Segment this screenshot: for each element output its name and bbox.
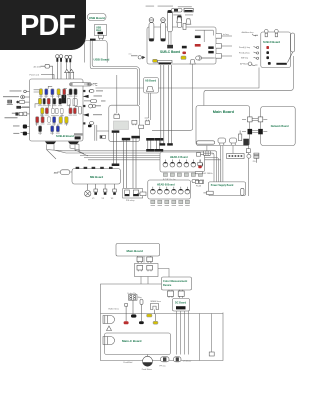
svg-text:AC 100Va: AC 100Va xyxy=(203,172,213,175)
svg-text:MB Board: MB Board xyxy=(90,175,103,179)
carriage connector J32 xyxy=(132,120,137,125)
media sensor trapezoid xyxy=(190,60,195,64)
svg-text:Color Measurement: Color Measurement xyxy=(163,279,187,283)
ribbon exit connector SUB-B 2 xyxy=(68,142,79,145)
sensor connector (yellow oval) A xyxy=(147,314,152,317)
AB Board box xyxy=(144,78,159,94)
DC board wires down xyxy=(177,311,189,355)
SRAM sensor xyxy=(150,300,161,321)
main board connector B xyxy=(230,138,237,145)
carriage enclosure box xyxy=(109,105,140,142)
main board crystal xyxy=(238,131,241,141)
wires top right of SUB-C xyxy=(195,30,213,42)
printer chassis outline (lower) xyxy=(101,284,224,361)
key label row 2 xyxy=(239,52,259,55)
wire into carriage left xyxy=(97,130,109,132)
cluster connector 2 xyxy=(147,257,153,263)
pump motor under MB xyxy=(85,184,91,197)
cluster connector 3 xyxy=(137,265,143,271)
SUB-B right edge connector row e xyxy=(83,104,101,108)
Power Supply Board box xyxy=(209,182,246,196)
svg-text:Main Board: Main Board xyxy=(127,249,144,253)
HEAD-C nozzles xyxy=(163,160,203,177)
HEAD-B nozzles xyxy=(150,187,189,204)
ribbon cable D (to HEAD-C) xyxy=(155,138,163,152)
SUB-B Board box xyxy=(30,79,84,141)
relay K2 xyxy=(133,190,138,196)
SUB-B right edge connector row d xyxy=(84,100,106,103)
valve V2 under MB xyxy=(102,184,107,200)
svg-text:Feed/Grid: Feed/Grid xyxy=(124,362,134,364)
svg-text:Network Board: Network Board xyxy=(271,125,289,128)
svg-text:Power Supply Board: Power Supply Board xyxy=(211,185,234,187)
svg-text:CR Motor: CR Motor xyxy=(183,360,192,363)
connector CN20 (black) xyxy=(182,46,187,49)
connector cluster box xyxy=(135,264,159,277)
svg-text:Addition key: Addition key xyxy=(242,31,255,34)
cluster connector 1 xyxy=(137,257,143,263)
svg-text:FFC: FFC xyxy=(90,85,94,87)
bundle turns down to power supply xyxy=(212,151,221,182)
relay box xyxy=(123,189,143,198)
MB Board box xyxy=(72,169,121,185)
DC Board box xyxy=(173,299,190,312)
pump tube (horizontal capsule) xyxy=(70,83,92,86)
paper sensor (yellow) xyxy=(181,56,186,59)
wire down right B xyxy=(209,314,214,357)
ribbon bar behind badge xyxy=(90,39,96,41)
PSU fuse capsule xyxy=(241,188,244,195)
key label row 4 xyxy=(240,62,258,66)
connector CN26 (yellow, bottom left) xyxy=(153,59,158,62)
chassis connector upper-left xyxy=(103,316,115,324)
ink cartridge row 1 xyxy=(39,89,77,95)
svg-text:P/S relay: P/S relay xyxy=(126,200,135,202)
svg-text:DC Board: DC Board xyxy=(175,302,187,305)
left row 5 label xyxy=(5,117,18,118)
svg-text:Feed Motor: Feed Motor xyxy=(142,368,152,371)
HEAD-B Board box xyxy=(148,180,191,199)
left label row 2 (AC inlet) xyxy=(3,95,30,99)
left row 3 (grid connector) xyxy=(7,100,30,105)
DC board connector (black) xyxy=(176,306,186,309)
SUB-D connector red xyxy=(266,46,269,49)
SUB-D ribbon bar xyxy=(276,63,286,65)
wire from SUB-B to SUB-D (net W1) xyxy=(96,68,260,89)
interior wires SUB-B xyxy=(34,86,79,135)
SUB-D connector black 1 xyxy=(266,51,269,54)
relay K1 xyxy=(125,190,130,196)
connector CN23 (black bar) xyxy=(195,36,201,39)
ribbon cable 0 (carriage to MB) xyxy=(112,130,120,166)
cutter connector (black oval) xyxy=(131,314,136,317)
Color Measurement Device box xyxy=(162,277,192,290)
PDF badge xyxy=(0,0,86,50)
svg-text:Roller Sens: Roller Sens xyxy=(109,308,119,310)
svg-text:Main Board: Main Board xyxy=(213,109,235,114)
wire bundle horizontal xyxy=(62,151,221,160)
PF encoder capsule xyxy=(160,357,170,368)
svg-text:Feed(+) key: Feed(+) key xyxy=(239,47,251,49)
cutter unit xyxy=(127,292,137,314)
magnet sensor xyxy=(138,297,143,321)
carriage connector J31 xyxy=(114,113,120,118)
svg-text:SUB-B Board: SUB-B Board xyxy=(56,134,74,138)
SUB-D connector black 2 xyxy=(266,56,269,59)
svg-text:FG: FG xyxy=(253,161,256,163)
SUB-D top connector A xyxy=(265,29,269,36)
power plug P2 above SUB-B xyxy=(65,55,72,79)
valve V1 under MB xyxy=(92,184,98,200)
svg-text:enc: enc xyxy=(129,54,132,56)
ground triangle xyxy=(107,326,112,331)
sensor trapezoid T2 xyxy=(186,19,191,24)
Network Board box xyxy=(261,106,296,145)
connector CN22 (yellow) xyxy=(182,57,186,60)
FL2A connector xyxy=(195,180,202,187)
key label row 1 xyxy=(239,46,259,49)
ink fuse F1 xyxy=(149,18,154,42)
power plug P1 above SUB-B xyxy=(56,55,63,79)
connector left of carriage xyxy=(100,135,106,138)
connector SUB-C right edge 1 xyxy=(216,33,232,38)
color device connector 2 xyxy=(178,290,184,298)
svg-text:SRAM Sens: SRAM Sens xyxy=(150,300,161,303)
SUB board enclosure outline xyxy=(85,41,108,63)
svg-text:Feed(-) key: Feed(-) key xyxy=(239,53,250,55)
svg-text:Main-C Board: Main-C Board xyxy=(122,339,142,343)
connector SUB-C right edge 2 xyxy=(216,44,232,49)
PSU inlet connector xyxy=(203,191,213,194)
svg-text:USB Board: USB Board xyxy=(94,58,110,62)
sensor trapezoid T1 xyxy=(177,17,182,22)
test pad under main board xyxy=(204,151,215,156)
transformer above SUB-B xyxy=(65,69,74,79)
capsule labels (smudge) xyxy=(35,96,77,134)
SUB-C Board box xyxy=(147,27,216,64)
wire loom from USB board to carriage xyxy=(90,40,139,105)
HEAD-B nozzle labels xyxy=(151,205,190,206)
wires main to cluster xyxy=(138,256,151,263)
cluster connector 4 xyxy=(147,265,153,271)
svg-text:Mag: Mag xyxy=(138,297,143,299)
svg-text:V1: V1 xyxy=(92,198,95,200)
left row 5 (inlet plug) xyxy=(12,112,30,116)
SUB-B right edge connector row g xyxy=(83,122,94,128)
svg-text:to key: to key xyxy=(223,33,230,36)
small sensor S2 xyxy=(183,24,186,30)
SUB-D connector black 3 xyxy=(268,62,271,65)
connector CN24 (red bar) xyxy=(195,44,201,47)
USB cable connector J30 xyxy=(99,35,104,40)
svg-text:HEAD-C Board: HEAD-C Board xyxy=(170,156,188,159)
thermistor component TH1 xyxy=(177,16,181,28)
ink cartridge row 2 xyxy=(38,98,76,105)
ribbon cable C (to HEAD-C) xyxy=(146,138,154,152)
media sensor wire xyxy=(152,64,193,130)
ink cartridge row 3 xyxy=(41,108,77,114)
wire cluster to color device xyxy=(141,269,169,285)
ink fuse F2 xyxy=(161,18,166,42)
fuse above SUB-B xyxy=(34,64,53,79)
left row 4 (dark connector) xyxy=(16,106,29,109)
left row 7 (valve connector) xyxy=(13,132,29,136)
fuse FL near HEAD-B xyxy=(192,179,204,183)
svg-text:Host: Host xyxy=(96,29,102,32)
roller sensor xyxy=(109,304,128,322)
board link connector pair 2 (black) xyxy=(242,129,267,134)
wire down right A xyxy=(199,314,201,361)
service connector right xyxy=(246,146,251,197)
flat bar component xyxy=(195,172,213,175)
ink cartridge row 4 xyxy=(36,117,69,124)
resistor R11 xyxy=(79,107,82,115)
svg-text:V3: V3 xyxy=(111,198,114,200)
SUB-D top connector B xyxy=(275,29,279,36)
connector column left of PSU xyxy=(197,153,204,157)
Main-C Board box xyxy=(105,333,171,355)
SUB-D Board box xyxy=(261,32,291,68)
lever sensor xyxy=(196,56,214,60)
wire to carriage connector xyxy=(116,75,118,113)
sensor with red dot xyxy=(198,160,202,169)
svg-text:AC inlet: AC inlet xyxy=(34,65,42,68)
black IC on SUB-B xyxy=(62,95,67,104)
chassis shelf line xyxy=(101,313,224,315)
svg-text:AB Board: AB Board xyxy=(145,80,157,83)
SUB-B right edge connector row c xyxy=(84,95,102,97)
wire bundle fan below SUB-B xyxy=(47,144,89,159)
svg-text:Panel unit: Panel unit xyxy=(30,73,40,76)
connector CN25 (black pair) xyxy=(208,46,213,53)
feed motor (lower) xyxy=(124,355,153,371)
Color Measurement Device label xyxy=(163,279,187,287)
carriage connector J34 xyxy=(145,120,150,125)
ribbon cable B (to relay box) xyxy=(131,136,139,188)
svg-text:PF enc: PF enc xyxy=(160,365,166,367)
wire main to dip xyxy=(221,146,233,182)
SUB-B right edge connector row f xyxy=(84,114,102,117)
SUB-D antenna bar xyxy=(291,33,295,52)
connector CN21 (red) xyxy=(182,52,186,55)
HEAD-C Board box xyxy=(160,152,205,172)
connector SUB-C right edge 3 xyxy=(216,54,232,59)
resistor R10 xyxy=(74,99,77,107)
carriage damper (gray block) xyxy=(114,121,129,130)
key label row 0 xyxy=(242,31,259,36)
left label row 1 (operation panel) xyxy=(10,90,30,93)
valve V3 under MB xyxy=(111,184,116,200)
main board battery capsule xyxy=(197,141,215,144)
FG plate xyxy=(253,153,259,163)
DIP switch row xyxy=(227,154,245,159)
svg-text:SW key: SW key xyxy=(241,58,249,60)
black comp bottom right of SUB-B xyxy=(75,136,81,139)
sensor connector (yellow oval) B xyxy=(153,321,158,324)
key label row 3 xyxy=(241,57,259,60)
Main Board (lower) box xyxy=(116,244,160,257)
chassis connector lower-left xyxy=(103,337,115,345)
40A fuse xyxy=(54,170,72,175)
main board connector A xyxy=(218,138,226,145)
svg-text:SUB-C Board: SUB-C Board xyxy=(160,50,180,54)
main board jumper block xyxy=(244,139,249,145)
svg-text:SUB-D Board: SUB-D Board xyxy=(263,40,280,44)
color device connector 1 xyxy=(168,290,174,298)
head ribbon connector CN27 xyxy=(158,60,172,64)
buzzer BZ1 xyxy=(197,56,216,60)
cover sensor box xyxy=(184,8,193,12)
encoder connector at SUB-C left xyxy=(129,54,146,60)
roller connector (red oval) xyxy=(124,321,129,324)
svg-text:HEAD-B Board: HEAD-B Board xyxy=(157,184,175,187)
ribbon cable A (to relay box) xyxy=(122,138,130,188)
label wire cluster above SUB-B xyxy=(30,73,55,79)
SUB-B right edge connector row b xyxy=(83,89,103,92)
PW sensor capsule xyxy=(171,8,182,12)
ink cartridge row 5 xyxy=(39,126,60,132)
Main Board box xyxy=(196,106,250,146)
svg-text:V2: V2 xyxy=(102,198,105,200)
wire main to TP xyxy=(206,146,208,151)
left row 6 (pump connector) xyxy=(13,125,30,129)
USB connector board U10 xyxy=(95,25,107,36)
gray bar bottom right of SUB-B xyxy=(74,133,83,135)
HEAD-B connector left xyxy=(137,192,146,196)
MB board top connectors xyxy=(76,167,113,169)
CR encoder capsule xyxy=(174,357,192,363)
board link connector pair 1 xyxy=(242,117,267,122)
cable along SUB-B right xyxy=(95,125,97,141)
svg-text:USB Board: USB Board xyxy=(89,16,105,20)
SUB-B right edge connector row a xyxy=(84,83,94,87)
tiny label cluster top xyxy=(173,6,193,15)
ribbon exit connector SUB-B 1 xyxy=(45,142,56,145)
carriage connector J33 xyxy=(139,125,144,128)
antenna feed diagonal xyxy=(288,52,293,63)
connector right of pump tube xyxy=(93,83,98,85)
sensor wires into SUB-C xyxy=(167,10,172,32)
sensor connector J11 xyxy=(167,45,173,49)
wire from Main Board to SUB-D antenna (net W2) xyxy=(204,56,293,106)
head FFC pair from SUB-C xyxy=(160,65,173,146)
svg-text:FL2A: FL2A xyxy=(196,185,202,188)
USB Board pill label xyxy=(88,14,107,21)
magnet connector (black oval) xyxy=(139,321,144,324)
wire from AB board down xyxy=(145,93,151,120)
svg-text:Device: Device xyxy=(163,283,172,287)
